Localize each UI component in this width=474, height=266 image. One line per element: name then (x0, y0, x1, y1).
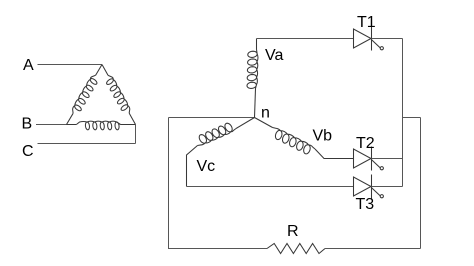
thyristor T1 gate terminal circle (380, 47, 383, 50)
wire node n to left rail (169, 117, 255, 119)
thyristor T2 gate terminal circle (380, 167, 383, 170)
wire Vc riser to T3 anode (187, 186, 354, 188)
cathode bus vertical (402, 39, 404, 187)
wire A to delta apex (38, 64, 103, 66)
load tap from bus (403, 117, 421, 119)
winding Vb coil (273, 128, 316, 154)
thyristor T2 gate lead (372, 160, 381, 168)
left rail down to load (168, 118, 170, 249)
wire T3 cathode to bus (372, 186, 403, 188)
svg-text:Va: Va (265, 47, 283, 64)
winding Va coil (247, 50, 258, 89)
wire node n to Vb coil (255, 118, 273, 128)
wire Va coil to node n (255, 89, 256, 118)
svg-text:T3: T3 (356, 196, 375, 213)
thyristor T3 gate terminal circle (380, 195, 383, 198)
svg-text:Vc: Vc (197, 158, 216, 175)
svg-text:T1: T1 (357, 14, 376, 31)
thyristor T1 cathode bar (371, 27, 373, 51)
svg-text:C: C (22, 143, 34, 160)
thyristor T1 gate lead (372, 40, 381, 48)
svg-text:A: A (23, 57, 34, 74)
wire Vc coil to corner riser (187, 146, 198, 187)
wire C riser to delta bottom-right vertex (135, 125, 137, 144)
wire T2 cathode to bus (372, 158, 403, 160)
bottom wire left of R (168, 248, 267, 250)
delta winding A-C coil (107, 75, 130, 113)
bottom wire right of R (325, 248, 421, 250)
delta winding A-C plain end segments (102, 65, 136, 125)
wire Vb coil to T2 anode (315, 149, 354, 159)
delta winding A-B plain end segments (67, 65, 103, 125)
wire Va corner to T1 anode (257, 38, 354, 40)
winding Va riser from top corner (256, 39, 258, 50)
thyristor T2 cathode bar (371, 147, 373, 171)
winding Vc coil (198, 123, 237, 145)
svg-text:B: B (22, 116, 33, 133)
svg-text:R: R (287, 223, 299, 240)
delta winding B-C plain end segments (67, 124, 136, 126)
thyristor T1 triangle (anode) (354, 29, 372, 48)
thyristor T3 cathode bar (371, 175, 373, 199)
delta winding A-B coil (73, 75, 97, 113)
wire B to delta bottom-left vertex (36, 124, 67, 126)
thyristor T3 gate lead (372, 188, 381, 196)
wire T1 cathode to bus (372, 38, 403, 40)
resistor R zigzag (267, 244, 325, 254)
thyristor T3 triangle (anode) (354, 177, 372, 196)
delta winding B-C coil (76, 121, 120, 130)
thyristor T2 triangle (anode) (354, 149, 372, 168)
svg-text:n: n (261, 105, 270, 122)
wire node n to Vc coil (236, 118, 255, 129)
svg-text:Vb: Vb (313, 128, 333, 145)
right rail down to load (420, 118, 422, 249)
wire C horizontal (38, 143, 136, 145)
svg-text:T2: T2 (356, 135, 375, 152)
